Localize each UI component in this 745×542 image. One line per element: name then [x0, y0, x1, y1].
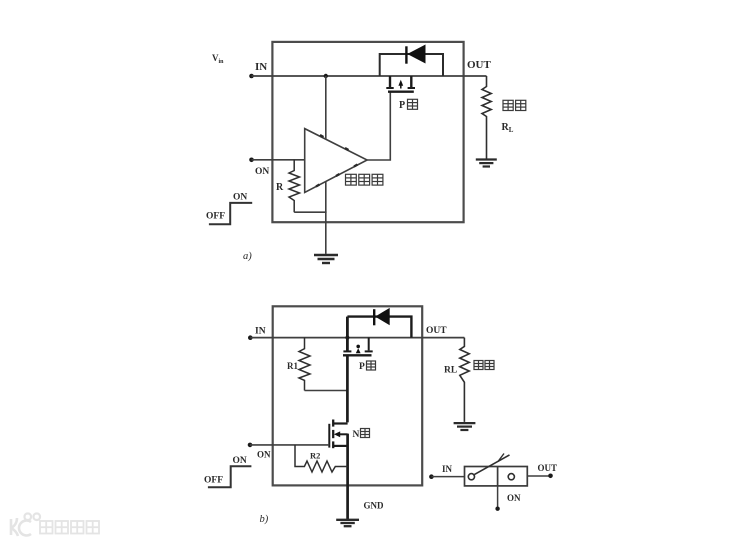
- diode D2 body diode loop (b): [347, 317, 411, 338]
- load resistor RL (b): [460, 338, 469, 422]
- terminal switch OUT: [548, 474, 553, 479]
- svg-text:RL: RL: [444, 366, 457, 376]
- label 负载 (load b) pseudo-CJK: [474, 361, 494, 370]
- terminal IN (a): [249, 74, 254, 79]
- svg-text:IN: IN: [442, 464, 453, 474]
- IC box A: [272, 42, 463, 222]
- svg-text:OUT: OUT: [538, 463, 558, 473]
- switch right contact: [508, 474, 514, 480]
- terminal ON (switch): [495, 507, 499, 511]
- svg-text:ON: ON: [233, 456, 247, 466]
- svg-text:R1: R1: [287, 361, 298, 371]
- svg-text:ON: ON: [233, 193, 247, 203]
- switch S1 box: [465, 467, 528, 486]
- svg-text:R2: R2: [310, 451, 320, 461]
- svg-text:OUT: OUT: [467, 59, 492, 71]
- svg-text:N: N: [353, 430, 360, 440]
- waveform ON/OFF (a): [209, 203, 252, 224]
- svg-text:Vin: Vin: [212, 53, 224, 65]
- svg-text:P: P: [359, 362, 365, 372]
- switch blade tick: [498, 454, 504, 462]
- svg-text:R: R: [276, 182, 284, 193]
- label 负载 (load a) pseudo-CJK: [503, 100, 526, 110]
- svg-text:ON: ON: [255, 167, 269, 177]
- label 反相器 (inverter) pseudo-CJK: [346, 174, 383, 185]
- IC box B: [273, 306, 423, 485]
- wire R1 bottom to gate bus (b): [305, 390, 348, 392]
- terminal ON (b): [248, 443, 253, 448]
- svg-text:RL: RL: [502, 122, 514, 134]
- switch left contact: [468, 474, 474, 480]
- transistor N管 (NMOS b): [329, 420, 347, 449]
- svg-text:OUT: OUT: [426, 326, 447, 336]
- transistor P管 (PMOS a): [386, 76, 415, 92]
- terminal ON (a): [249, 158, 254, 163]
- wire ON terminal to NMOS gate (b): [250, 444, 329, 446]
- wire switch OUT: [527, 475, 550, 477]
- transistor P管 (PMOS b): [343, 338, 373, 356]
- wire feedback R bottom to center vertical (a): [294, 211, 326, 213]
- tick marks on inverter edges: [316, 135, 358, 187]
- ground (load b): [454, 423, 476, 430]
- svg-text:ON: ON: [257, 450, 271, 460]
- wire gate bus vertical (b): [346, 355, 349, 422]
- wire IN to OUT main rail (b): [250, 337, 464, 339]
- resistor R1: [299, 338, 310, 391]
- switch blade: [474, 455, 509, 475]
- wire IN to OUT main rail (a): [252, 75, 487, 77]
- svg-text:IN: IN: [255, 327, 266, 337]
- terminal switch IN: [429, 474, 434, 479]
- svg-text:IN: IN: [255, 61, 267, 73]
- svg-text:b): b): [260, 514, 269, 525]
- svg-text:OFF: OFF: [204, 476, 223, 486]
- junction dot on IN rail (a): [324, 74, 328, 78]
- ground (main a): [314, 255, 338, 263]
- wire switch IN: [431, 476, 464, 478]
- op-amp U1 inverter triangle: [305, 129, 367, 193]
- resistor R: [289, 160, 300, 212]
- svg-text:P: P: [399, 100, 405, 111]
- junction dot main rail (b): [345, 336, 349, 340]
- wire ON terminal to inverter input (a): [252, 159, 305, 161]
- diode D2 triangle: [375, 308, 390, 325]
- svg-text:a): a): [243, 251, 252, 262]
- load resistor RL (a): [482, 76, 491, 159]
- ground (main b): [336, 520, 359, 526]
- wire IN junction down through inverter to ground (a): [325, 76, 327, 254]
- waveform ON/OFF (b): [208, 466, 252, 487]
- wire source to ground (b): [346, 434, 349, 520]
- svg-text:GND: GND: [364, 501, 385, 511]
- svg-text:OFF: OFF: [206, 212, 225, 222]
- wire inverter output to gate (a): [367, 92, 390, 160]
- wire switch ON control: [497, 486, 499, 507]
- diode D1 triangle: [407, 45, 425, 64]
- diode D1 cathode bar: [405, 46, 407, 63]
- terminal IN (b): [248, 335, 253, 340]
- ground (load a): [476, 160, 497, 167]
- diode D2 cathode bar: [373, 309, 375, 325]
- resistor R2: [295, 445, 348, 472]
- svg-text:ON: ON: [507, 493, 521, 503]
- wire PMOS left bus (b): [346, 317, 349, 351]
- diode D1 body diode loop (a): [380, 54, 443, 76]
